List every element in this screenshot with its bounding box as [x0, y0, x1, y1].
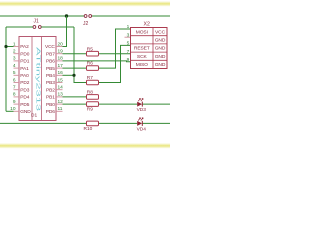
svg-text:PA0: PA0 — [20, 73, 29, 79]
svg-text:3: 3 — [13, 56, 16, 62]
svg-text:J2: J2 — [83, 21, 89, 27]
svg-text:17: 17 — [58, 63, 64, 69]
svg-text:1: 1 — [127, 24, 130, 30]
svg-text:R5: R5 — [87, 46, 93, 52]
resistor R5 — [87, 46, 99, 56]
svg-text:R7: R7 — [87, 75, 93, 81]
svg-text:10: 10 — [10, 106, 16, 112]
svg-text:PA1: PA1 — [20, 66, 29, 72]
svg-text:VCC: VCC — [155, 29, 166, 35]
svg-text:9: 9 — [127, 57, 130, 63]
svg-text:GND: GND — [155, 38, 166, 44]
svg-text:GND: GND — [20, 109, 31, 115]
svg-text:VD3: VD3 — [137, 107, 147, 113]
resistor R6 — [87, 61, 99, 71]
svg-text:5: 5 — [13, 70, 16, 76]
svg-text:PB6: PB6 — [46, 59, 55, 65]
frame band bottom — [0, 143, 170, 149]
wire J1 left to reset rail — [6, 27, 74, 111]
node pin16 junction — [72, 74, 75, 77]
svg-text:R9: R9 — [87, 107, 93, 113]
svg-text:13: 13 — [58, 92, 64, 98]
svg-text:X2: X2 — [144, 22, 150, 28]
diode VD4 — [137, 118, 147, 133]
svg-text:PD6: PD6 — [46, 109, 55, 115]
svg-text:VCC: VCC — [45, 44, 55, 50]
wire VCC to pin20 — [63, 16, 67, 47]
frame band top — [0, 1, 170, 7]
IC left pin names — [20, 44, 31, 115]
svg-text:PD0: PD0 — [20, 51, 29, 57]
svg-text:D1: D1 — [31, 113, 37, 119]
connector X2 pin3 stub — [125, 36, 131, 38]
svg-text:7: 7 — [127, 49, 130, 55]
resistor R10 — [84, 121, 99, 132]
svg-text:14: 14 — [58, 85, 64, 91]
jumper J1 — [33, 19, 41, 29]
svg-text:PB2: PB2 — [46, 87, 55, 93]
svg-text:1: 1 — [13, 41, 16, 47]
wire left rail to R10 — [0, 122, 87, 124]
wire VD4 right — [143, 122, 170, 124]
node VCC junction — [65, 14, 68, 17]
IC left pin stubs — [14, 47, 20, 112]
svg-text:R8: R8 — [87, 90, 93, 96]
IC left pin numbers — [10, 41, 16, 112]
svg-text:PB3: PB3 — [46, 80, 55, 86]
resistor R7 — [87, 75, 99, 85]
wire VD3 right — [143, 103, 170, 105]
svg-text:GND: GND — [155, 62, 166, 68]
svg-text:R10: R10 — [84, 126, 93, 132]
connector X2 cell labels — [134, 29, 166, 68]
svg-text:19: 19 — [58, 49, 64, 55]
wire pin19 to R5 — [63, 53, 87, 55]
wire pin17 to R6 — [63, 67, 87, 69]
svg-text:9: 9 — [13, 99, 16, 105]
wire R6 to X2 MOSI — [99, 29, 131, 68]
resistor R8 — [87, 90, 99, 100]
svg-text:MISO: MISO — [136, 62, 148, 68]
svg-text:15: 15 — [58, 77, 64, 83]
svg-text:RESET: RESET — [134, 46, 150, 52]
svg-text:5: 5 — [127, 41, 130, 47]
svg-text:11: 11 — [58, 106, 63, 112]
wire R10 to VD4 — [99, 122, 138, 124]
svg-text:PD4: PD4 — [20, 95, 29, 101]
wire VCC rail top — [0, 15, 170, 17]
svg-text:PD3: PD3 — [20, 87, 29, 93]
svg-text:2: 2 — [13, 49, 16, 55]
IC right pin stubs — [56, 47, 63, 112]
wire pin18 MISO to X2 — [63, 60, 131, 63]
connector X2 pin numbers — [127, 24, 130, 63]
svg-text:PB7: PB7 — [46, 51, 55, 57]
svg-text:PB5: PB5 — [46, 66, 55, 72]
svg-text:PB1: PB1 — [46, 95, 55, 101]
resistor R9 — [87, 102, 99, 113]
svg-text:R6: R6 — [87, 61, 93, 67]
IC right pin numbers — [58, 41, 64, 112]
svg-text:4: 4 — [13, 63, 16, 69]
connector X2 — [131, 22, 168, 69]
IC right pin names — [45, 44, 55, 115]
wire J1 right down to R7 — [63, 27, 87, 83]
diode VD3 — [137, 99, 147, 114]
svg-text:PB4: PB4 — [46, 73, 55, 79]
svg-text:8: 8 — [13, 92, 16, 98]
svg-text:PD5: PD5 — [20, 102, 29, 108]
svg-text:20: 20 — [58, 41, 64, 47]
wire R7 to X2 RESET — [99, 45, 131, 82]
svg-text:PB0: PB0 — [46, 102, 55, 108]
svg-text:PA2: PA2 — [20, 44, 29, 50]
svg-text:3: 3 — [127, 32, 130, 38]
svg-text:PD2: PD2 — [20, 80, 29, 86]
svg-text:16: 16 — [58, 70, 64, 76]
wire R5 to X2 SCK — [99, 53, 131, 55]
svg-text:ATtiny2313: ATtiny2313 — [35, 47, 41, 111]
wire R9 to VD3 — [99, 103, 138, 105]
wire pin13 to R8 — [63, 96, 87, 98]
svg-text:7: 7 — [13, 85, 16, 91]
node pin1 junction — [4, 45, 7, 48]
svg-text:GND: GND — [155, 46, 166, 52]
svg-text:J1: J1 — [34, 19, 40, 25]
svg-text:12: 12 — [58, 99, 64, 105]
svg-text:GND: GND — [155, 54, 166, 60]
svg-text:MOSI: MOSI — [136, 29, 148, 35]
svg-text:6: 6 — [13, 77, 16, 83]
IC D1 ATtiny2313 — [19, 37, 56, 121]
wire pin12 to R9 — [63, 103, 87, 105]
svg-text:SCK: SCK — [137, 54, 148, 60]
jumper J2 — [83, 15, 92, 27]
svg-text:PD1: PD1 — [20, 59, 29, 65]
svg-text:VD4: VD4 — [137, 127, 147, 133]
svg-text:18: 18 — [58, 56, 64, 62]
